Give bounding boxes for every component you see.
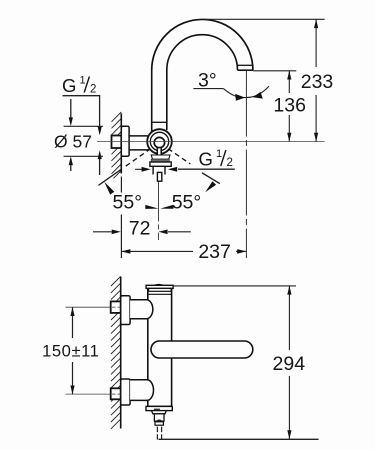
svg-text:72: 72 [129, 218, 151, 240]
svg-text:237: 237 [198, 241, 231, 263]
svg-text:1: 1 [80, 75, 86, 87]
svg-text:2: 2 [227, 157, 233, 169]
svg-text:G: G [199, 148, 213, 169]
svg-text:2: 2 [90, 84, 96, 96]
svg-text:55°: 55° [113, 192, 143, 214]
svg-text:G: G [62, 75, 76, 96]
svg-text:1: 1 [216, 148, 222, 160]
svg-text:150±11: 150±11 [42, 342, 99, 361]
svg-text:55°: 55° [172, 192, 202, 214]
svg-text:136: 136 [273, 94, 306, 116]
svg-text:294: 294 [273, 353, 306, 375]
svg-text:Ø 57: Ø 57 [54, 132, 92, 152]
svg-text:233: 233 [301, 71, 334, 93]
